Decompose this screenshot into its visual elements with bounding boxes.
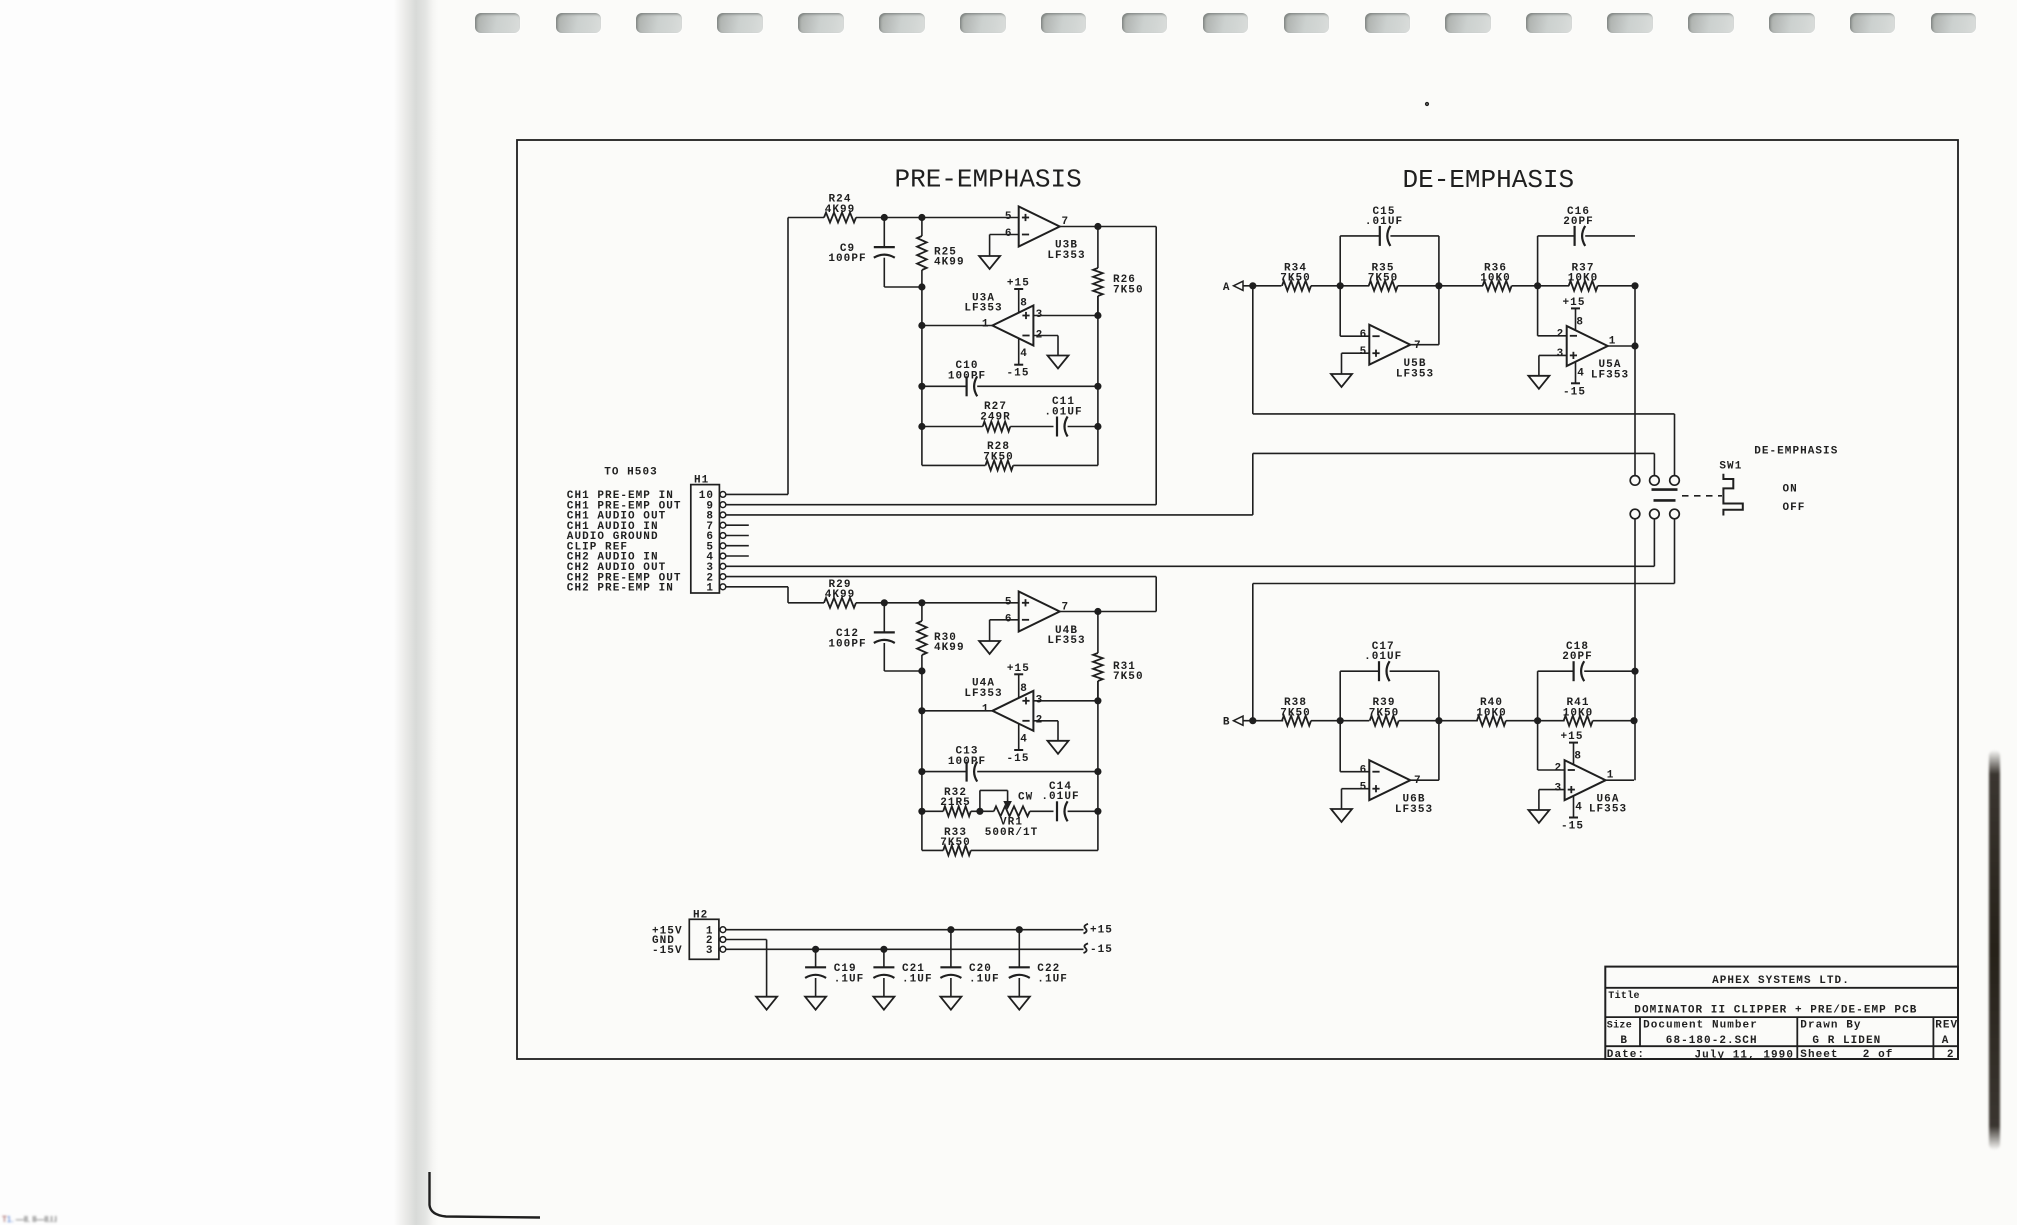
svg-text:July 11, 1990: July 11, 1990 bbox=[1695, 1049, 1794, 1061]
svg-text:20PF: 20PF bbox=[1563, 216, 1594, 228]
svg-text:-15: -15 bbox=[1090, 944, 1113, 956]
svg-text:10K0: 10K0 bbox=[1480, 273, 1511, 285]
svg-text:1: 1 bbox=[706, 583, 714, 595]
svg-text:CH2 PRE-EMP IN: CH2 PRE-EMP IN bbox=[567, 583, 674, 595]
svg-text:Sheet: Sheet bbox=[1800, 1049, 1838, 1061]
svg-text:68-180-2.SCH: 68-180-2.SCH bbox=[1666, 1035, 1758, 1047]
svg-text:.01UF: .01UF bbox=[1041, 791, 1079, 803]
svg-text:10K0: 10K0 bbox=[1563, 708, 1594, 720]
svg-text:LF353: LF353 bbox=[1396, 368, 1434, 380]
svg-text:CW: CW bbox=[1018, 792, 1033, 804]
svg-text:5: 5 bbox=[1360, 346, 1368, 358]
svg-text:G R LIDEN: G R LIDEN bbox=[1812, 1035, 1881, 1047]
svg-text:100PF: 100PF bbox=[828, 253, 866, 265]
svg-text:100PF: 100PF bbox=[948, 370, 986, 382]
svg-text:H1: H1 bbox=[694, 475, 709, 487]
svg-text:.01UF: .01UF bbox=[1365, 216, 1403, 228]
svg-text:2: 2 bbox=[1036, 329, 1044, 341]
svg-text:LF353: LF353 bbox=[964, 688, 1002, 700]
svg-text:ON: ON bbox=[1783, 484, 1798, 496]
svg-text:LF353: LF353 bbox=[964, 303, 1002, 315]
svg-text:-15: -15 bbox=[1563, 386, 1586, 398]
svg-text:+15: +15 bbox=[1007, 663, 1030, 675]
svg-text:7K50: 7K50 bbox=[1369, 708, 1400, 720]
svg-text:7K50: 7K50 bbox=[1280, 273, 1311, 285]
svg-text:3: 3 bbox=[1555, 782, 1563, 794]
svg-text:3: 3 bbox=[706, 945, 714, 957]
svg-text:7: 7 bbox=[1414, 775, 1422, 787]
svg-text:4K99: 4K99 bbox=[825, 204, 856, 216]
svg-text:TO H503: TO H503 bbox=[604, 467, 658, 479]
svg-text:B: B bbox=[1223, 717, 1231, 729]
svg-text:.1UF: .1UF bbox=[902, 973, 933, 985]
svg-text:A: A bbox=[1223, 282, 1231, 294]
svg-text:2 of: 2 of bbox=[1863, 1049, 1894, 1061]
svg-text:-15: -15 bbox=[1007, 753, 1030, 765]
svg-text:100PF: 100PF bbox=[828, 638, 866, 650]
svg-text:4: 4 bbox=[1020, 348, 1028, 360]
svg-text:1: 1 bbox=[982, 704, 990, 716]
svg-text:REV: REV bbox=[1935, 1020, 1958, 1032]
svg-text:4: 4 bbox=[1020, 733, 1028, 745]
svg-text:OFF: OFF bbox=[1783, 502, 1806, 514]
svg-text:3: 3 bbox=[1036, 309, 1044, 321]
svg-text:2: 2 bbox=[1036, 715, 1044, 727]
svg-text:8: 8 bbox=[1576, 317, 1584, 329]
svg-text:2: 2 bbox=[1555, 763, 1563, 775]
svg-text:+15: +15 bbox=[1561, 731, 1584, 743]
svg-text:+15: +15 bbox=[1090, 925, 1113, 937]
svg-text:-15V: -15V bbox=[652, 945, 683, 957]
svg-text:6: 6 bbox=[1360, 765, 1368, 777]
svg-text:100PF: 100PF bbox=[948, 756, 986, 768]
svg-text:+15: +15 bbox=[1007, 278, 1030, 290]
svg-text:7K50: 7K50 bbox=[1113, 671, 1144, 683]
svg-text:21R5: 21R5 bbox=[940, 797, 971, 809]
svg-text:Date:: Date: bbox=[1607, 1049, 1645, 1061]
svg-text:4: 4 bbox=[1575, 802, 1583, 814]
svg-text:4K99: 4K99 bbox=[825, 589, 856, 601]
svg-text:LF353: LF353 bbox=[1591, 369, 1629, 381]
svg-text:8: 8 bbox=[1574, 751, 1582, 763]
svg-text:20PF: 20PF bbox=[1562, 651, 1593, 663]
svg-text:DOMINATOR II CLIPPER + PRE/DE-: DOMINATOR II CLIPPER + PRE/DE-EMP PCB bbox=[1634, 1005, 1917, 1017]
svg-text:LF353: LF353 bbox=[1047, 635, 1085, 647]
svg-text:.01UF: .01UF bbox=[1364, 651, 1402, 663]
svg-text:LF353: LF353 bbox=[1589, 804, 1627, 816]
svg-text:4: 4 bbox=[1577, 367, 1585, 379]
svg-text:4K99: 4K99 bbox=[934, 642, 965, 654]
svg-text:7K50: 7K50 bbox=[1113, 284, 1144, 296]
svg-text:7: 7 bbox=[1062, 216, 1070, 228]
svg-text:3: 3 bbox=[1557, 348, 1565, 360]
svg-text:Document Number: Document Number bbox=[1643, 1020, 1758, 1032]
svg-text:1: 1 bbox=[1607, 770, 1615, 782]
svg-text:7K50: 7K50 bbox=[1280, 708, 1311, 720]
svg-text:8: 8 bbox=[1020, 298, 1028, 310]
svg-text:8: 8 bbox=[1020, 683, 1028, 695]
svg-text:A: A bbox=[1942, 1035, 1950, 1047]
svg-text:Drawn By: Drawn By bbox=[1800, 1020, 1861, 1032]
svg-text:H2: H2 bbox=[693, 909, 708, 921]
svg-text:Title: Title bbox=[1608, 990, 1640, 1002]
svg-text:6: 6 bbox=[1360, 329, 1368, 341]
svg-text:249R: 249R bbox=[980, 411, 1011, 423]
svg-text:5: 5 bbox=[1005, 211, 1013, 223]
svg-text:3: 3 bbox=[1036, 694, 1044, 706]
svg-text:5: 5 bbox=[1360, 782, 1368, 794]
svg-text:7: 7 bbox=[1414, 340, 1422, 352]
svg-text:7K50: 7K50 bbox=[983, 451, 1014, 463]
svg-text:1: 1 bbox=[982, 318, 990, 330]
svg-text:7K50: 7K50 bbox=[940, 837, 971, 849]
svg-text:4K99: 4K99 bbox=[934, 257, 965, 269]
svg-text:500R/1T: 500R/1T bbox=[985, 827, 1039, 839]
svg-text:7K50: 7K50 bbox=[1368, 273, 1399, 285]
svg-text:2: 2 bbox=[1557, 328, 1565, 340]
svg-text:DE-EMPHASIS: DE-EMPHASIS bbox=[1403, 165, 1575, 195]
svg-text:.1UF: .1UF bbox=[834, 973, 865, 985]
svg-text:1: 1 bbox=[1609, 335, 1617, 347]
svg-text:LF353: LF353 bbox=[1395, 804, 1433, 816]
svg-text:Size: Size bbox=[1607, 1019, 1632, 1031]
svg-text:+15: +15 bbox=[1563, 297, 1586, 309]
svg-text:7: 7 bbox=[1062, 601, 1070, 613]
svg-text:2: 2 bbox=[1947, 1049, 1955, 1061]
svg-text:SW1: SW1 bbox=[1719, 460, 1742, 472]
svg-text:APHEX SYSTEMS LTD.: APHEX SYSTEMS LTD. bbox=[1712, 975, 1850, 987]
svg-text:LF353: LF353 bbox=[1047, 250, 1085, 262]
svg-text:5: 5 bbox=[1005, 596, 1013, 608]
svg-text:.1UF: .1UF bbox=[969, 973, 1000, 985]
svg-text:.1UF: .1UF bbox=[1037, 973, 1068, 985]
svg-text:10K0: 10K0 bbox=[1476, 708, 1507, 720]
svg-text:-15: -15 bbox=[1561, 821, 1584, 833]
svg-text:PRE-EMPHASIS: PRE-EMPHASIS bbox=[895, 165, 1082, 195]
svg-text:B: B bbox=[1620, 1035, 1628, 1047]
svg-text:10K0: 10K0 bbox=[1568, 273, 1599, 285]
svg-text:-15: -15 bbox=[1007, 368, 1030, 380]
svg-text:.01UF: .01UF bbox=[1044, 406, 1082, 418]
svg-text:DE-EMPHASIS: DE-EMPHASIS bbox=[1754, 446, 1838, 458]
